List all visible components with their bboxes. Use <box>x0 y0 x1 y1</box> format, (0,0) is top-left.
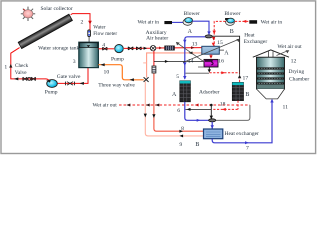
svg-text:17: 17 <box>243 75 249 81</box>
svg-text:Three way valve: Three way valve <box>98 83 135 89</box>
svg-text:14: 14 <box>188 59 194 65</box>
svg-text:Heat exchanger: Heat exchanger <box>225 131 260 137</box>
svg-text:Valve: Valve <box>15 70 28 76</box>
svg-text:18: 18 <box>220 101 226 107</box>
svg-text:13: 13 <box>192 42 198 48</box>
svg-text:A: A <box>188 29 193 35</box>
svg-text:3: 3 <box>73 59 76 65</box>
svg-text:Wet air out: Wet air out <box>93 103 118 109</box>
svg-text:7: 7 <box>246 146 249 152</box>
svg-text:A: A <box>172 92 177 98</box>
svg-text:Pump: Pump <box>111 56 124 62</box>
svg-text:A: A <box>224 50 229 56</box>
svg-text:Check: Check <box>15 63 29 69</box>
svg-text:1: 1 <box>4 64 7 70</box>
svg-text:B: B <box>230 29 234 35</box>
svg-text:Drying: Drying <box>289 69 305 75</box>
svg-text:15: 15 <box>217 40 223 46</box>
svg-text:Blower: Blower <box>224 11 240 17</box>
svg-text:Adsorber: Adsorber <box>199 90 220 96</box>
svg-text:Wet air in: Wet air in <box>138 20 160 26</box>
svg-text:B: B <box>195 142 199 148</box>
svg-text:Water: Water <box>93 25 106 31</box>
svg-text:Wet air out: Wet air out <box>277 44 302 50</box>
svg-text:5: 5 <box>176 74 179 80</box>
svg-text:16: 16 <box>218 58 224 64</box>
svg-text:12: 12 <box>291 59 297 65</box>
svg-text:10: 10 <box>104 70 110 76</box>
svg-text:Pump: Pump <box>45 90 58 96</box>
svg-text:Wet air in: Wet air in <box>261 20 283 26</box>
svg-text:2: 2 <box>81 20 84 26</box>
svg-text:8: 8 <box>181 126 184 132</box>
svg-text:9: 9 <box>179 142 182 148</box>
svg-text:4: 4 <box>102 43 105 49</box>
svg-text:6: 6 <box>177 108 180 114</box>
svg-text:11: 11 <box>283 105 289 111</box>
svg-text:Solar collector: Solar collector <box>41 6 73 12</box>
svg-text:Chamber: Chamber <box>289 77 309 83</box>
svg-text:Air heater: Air heater <box>146 35 168 41</box>
svg-text:Gate valve: Gate valve <box>57 74 81 80</box>
svg-text:Blower: Blower <box>184 11 200 17</box>
svg-text:B: B <box>245 92 249 98</box>
svg-text:Flow meter: Flow meter <box>93 31 117 37</box>
svg-text:Heat: Heat <box>244 32 255 38</box>
svg-text:Exchanger: Exchanger <box>244 39 268 45</box>
svg-text:Water storage tank: Water storage tank <box>38 46 79 52</box>
